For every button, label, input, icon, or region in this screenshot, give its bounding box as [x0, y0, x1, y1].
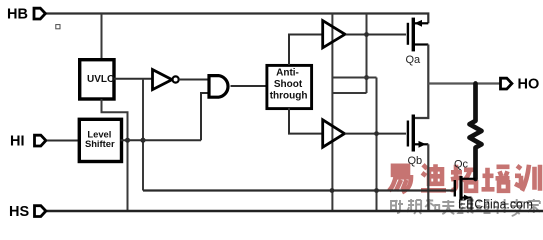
- arrow Qa source: [415, 20, 423, 27]
- block Anti-Shoot through: [267, 65, 312, 108]
- junction dot cross of V1 and W3: [364, 75, 369, 80]
- wire inverter output to AND input: [179, 79, 208, 81]
- wire node V1 from rail down to cross-couple: [366, 14, 368, 94]
- svg-text:Anti-: Anti-: [276, 67, 299, 78]
- transistor Qa: [408, 18, 428, 52]
- pin HI: [35, 135, 46, 146]
- svg-text:EEChina.com: EEChina.com: [458, 197, 533, 212]
- wire Qa drain / Qb drain vertical: [414, 45, 428, 119]
- buffer U4 bottom: [323, 120, 345, 147]
- svg-text:Qb: Qb: [408, 155, 423, 167]
- svg-text:Qa: Qa: [406, 54, 422, 66]
- wire bottom buffer output to Qb gate: [345, 133, 406, 135]
- buffer U3 top: [323, 21, 345, 48]
- junction dot left vertical on Qc gate line: [330, 188, 335, 193]
- arrow Qb source: [419, 141, 427, 148]
- wire feedback branch from UVLO output down to Qc gate line: [142, 79, 144, 191]
- wire HB top rail: [46, 14, 428, 24]
- svg-text:HO: HO: [518, 77, 540, 93]
- pin HB: [34, 8, 45, 19]
- junction dot top-buffer output: [364, 32, 369, 37]
- junction dot right vertical on Qc gate line: [374, 188, 379, 193]
- arrow Qc source: [464, 195, 471, 201]
- wire AND output to anti-shoot block: [231, 85, 267, 87]
- svg-text:HI: HI: [10, 134, 25, 150]
- transistor Qb: [408, 115, 428, 152]
- pin HO: [501, 78, 512, 89]
- wire anti-shoot top pin to top buffer: [289, 35, 323, 66]
- AND gate U2: [209, 76, 228, 98]
- wire cross-couple W3: [332, 77, 377, 79]
- pin HS: [35, 206, 46, 217]
- svg-text:HS: HS: [9, 204, 29, 219]
- wire HI to level shifter: [47, 140, 80, 142]
- wire HS rail: [46, 210, 543, 212]
- transistor Qc: [455, 176, 476, 200]
- wire cross-couple right vertical to HS rail: [376, 78, 378, 212]
- svg-text:through: through: [270, 91, 308, 102]
- wire UVLO top pin: [101, 14, 103, 59]
- wire Qc source to HS rail: [470, 198, 472, 211]
- wire AND lower input from level shifter: [201, 93, 208, 140]
- wire UVLO bottom pin down to HS rail: [102, 99, 128, 211]
- junction dot on level-shifter output: [140, 138, 145, 143]
- svg-text:Shifter: Shifter: [85, 138, 115, 149]
- junction dot on level-shifter output left: [125, 138, 130, 143]
- wire HO output: [428, 82, 501, 84]
- wire Qb source to HS rail: [427, 144, 429, 211]
- wire cross-couple left vertical to HS rail: [331, 14, 333, 212]
- junction dot W4 on bottom buffer output: [374, 131, 379, 136]
- svg-text:Shoot: Shoot: [274, 79, 303, 90]
- block UVLO: [80, 60, 114, 99]
- resistor R1: [470, 84, 482, 180]
- wire UVLO output to inverter: [114, 78, 152, 80]
- wire cross-couple W5: [332, 92, 367, 94]
- svg-text:Qc: Qc: [454, 159, 469, 171]
- block Level Shifter: [79, 119, 121, 161]
- svg-text:HB: HB: [7, 6, 28, 22]
- inverter U1: [153, 70, 179, 90]
- wire level shifter output: [121, 139, 202, 141]
- tiny square marker: [56, 25, 60, 29]
- wire anti-shoot bottom pin to bottom buffer: [289, 108, 323, 134]
- watermark: [389, 164, 540, 216]
- wire Qc gate line: [143, 189, 454, 191]
- wire top buffer output to Qa gate: [346, 34, 406, 36]
- svg-text:UVLO: UVLO: [87, 74, 115, 85]
